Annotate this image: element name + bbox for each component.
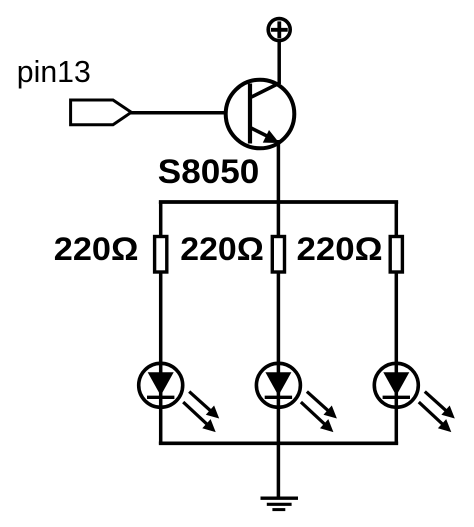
svg-text:220Ω: 220Ω [54,231,139,267]
pin13 connector pointer [71,100,132,125]
svg-text:S8050: S8050 [158,153,259,191]
transistor Q1 S8050 [226,80,295,149]
wire top bus to R1 [159,202,163,238]
wire emitter down to top bus [277,140,281,203]
wire R1 to bottom bus [159,271,163,444]
wire top bus [161,200,397,204]
wire bottom bus [161,441,397,445]
resistor R1 [155,237,167,273]
wire R2 to bottom bus [277,271,281,444]
LED D2 [256,363,337,432]
LED D3 [374,363,455,432]
LED D1 [139,363,220,432]
wire bottom bus to ground [277,443,281,497]
wire R3 to bottom bus [395,271,399,444]
svg-text:220Ω: 220Ω [180,231,263,267]
wire top bus to R3 [395,202,399,238]
wire top bus to R2 [277,202,281,238]
resistor R3 [390,237,402,273]
svg-text:220Ω: 220Ω [297,231,383,267]
wire base to pin13 [130,111,225,115]
ground [261,498,299,509]
resistor R2 [272,237,284,273]
wire collector to supply [277,41,281,84]
power supply positive terminal [268,19,290,41]
svg-text:pin13: pin13 [17,55,91,89]
